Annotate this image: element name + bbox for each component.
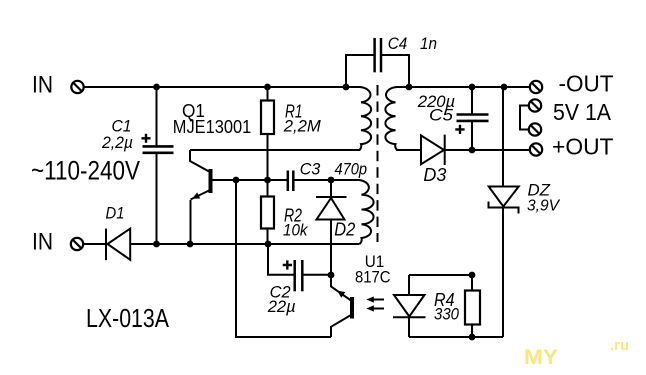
terminal IN top [71, 81, 83, 93]
wire bottom opto row [409, 336, 503, 338]
svg-text:10k: 10k [283, 221, 309, 240]
wire top rail left [84, 86, 346, 88]
capacitor C5 [455, 87, 488, 150]
resistor R2 [261, 180, 274, 244]
transformer T1 primary winding [190, 87, 371, 150]
terminal -OUT [530, 81, 542, 93]
svg-text:IN: IN [32, 72, 53, 99]
svg-text:MJE13001: MJE13001 [173, 117, 252, 137]
diode D3 [421, 135, 530, 165]
wire bottom rail [130, 243, 359, 245]
diode D2 [316, 180, 347, 275]
optocoupler U1 phototransistor [331, 275, 352, 337]
svg-text:.ru: .ru [610, 337, 629, 354]
capacitor C1 [142, 87, 174, 244]
wire top rail right [409, 86, 530, 88]
svg-text:MY: MY [524, 346, 558, 369]
transformer T1 core [377, 85, 379, 242]
transistor Q1 [190, 150, 287, 244]
svg-text:C3: C3 [300, 159, 321, 178]
svg-text:470p: 470p [335, 159, 368, 178]
svg-text:LX-013A: LX-013A [86, 303, 170, 333]
svg-text:DZ: DZ [528, 181, 551, 200]
terminal IN bottom [71, 238, 83, 250]
svg-text:-OUT: -OUT [559, 70, 614, 96]
svg-text:22µ: 22µ [267, 297, 296, 316]
transformer T1 feedback winding [331, 180, 374, 244]
terminal +OUT [530, 143, 542, 155]
zener diode DZ [489, 87, 519, 337]
svg-text:330: 330 [434, 304, 459, 323]
diode D1 [106, 229, 130, 261]
svg-text:C4: C4 [388, 34, 408, 53]
svg-text:D3: D3 [423, 165, 446, 185]
resistor R4 [465, 275, 480, 337]
transformer T1 secondary winding [385, 87, 421, 150]
svg-text:2,2M: 2,2M [283, 117, 322, 136]
capacitor C2 [268, 244, 331, 291]
wire LED anode to R4 top [409, 274, 472, 276]
wire bottom IN to D1 [84, 243, 107, 245]
svg-text:IN: IN [32, 228, 53, 255]
connector pair 5V [520, 99, 541, 135]
svg-text:1n: 1n [420, 34, 437, 53]
svg-text:D2: D2 [334, 220, 355, 240]
svg-text:2,2µ: 2,2µ [101, 133, 133, 152]
resistor R1 [261, 87, 274, 180]
svg-text:D1: D1 [106, 204, 125, 223]
wire base tap down to opto [236, 180, 331, 337]
optocoupler U1 LED [393, 275, 426, 337]
capacitor C4 [346, 38, 409, 87]
svg-text:+OUT: +OUT [552, 133, 614, 159]
svg-text:C5: C5 [429, 105, 454, 124]
svg-text:5V 1A: 5V 1A [553, 99, 612, 125]
optocoupler U1 light arrows [366, 296, 384, 311]
capacitor C3 [288, 171, 331, 192]
svg-text:~110-240V: ~110-240V [31, 155, 140, 185]
svg-text:3,9V: 3,9V [527, 198, 560, 215]
svg-text:817C: 817C [355, 268, 391, 287]
